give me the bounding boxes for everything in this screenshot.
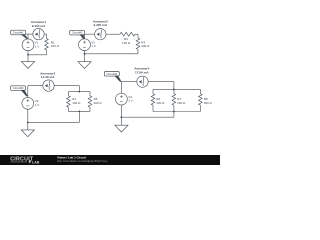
resistor R5: [89, 92, 91, 96]
resistor R2: [120, 32, 135, 36]
svg-text:17.86 mA: 17.86 mA: [135, 70, 149, 74]
wire bottom rail c2: [85, 53, 139, 55]
wire: [135, 33, 138, 35]
wire: [120, 105, 122, 117]
wire: [85, 33, 95, 35]
svg-text:200 Ω: 200 Ω: [141, 44, 150, 48]
node flag Circuit#4: [104, 72, 119, 77]
svg-text:100 Ω: 100 Ω: [51, 44, 60, 48]
wire: [27, 109, 29, 122]
wire: [106, 33, 120, 35]
wire: [46, 34, 48, 38]
svg-text:Circuit#3: Circuit#3: [13, 86, 24, 90]
junction: [84, 53, 86, 55]
voltage source V4: [116, 93, 128, 105]
ground c1: [27, 55, 29, 62]
ammeter AM1: [33, 28, 44, 39]
ground c2: [84, 54, 86, 62]
svg-text:1 V: 1 V: [128, 99, 133, 103]
resistor R3: [136, 38, 140, 49]
svg-text:200 Ω: 200 Ω: [94, 101, 103, 105]
wire: [27, 86, 29, 98]
footer bar: [0, 155, 220, 165]
junction: [27, 54, 29, 56]
wire: [27, 34, 29, 39]
wire bottom rail c3 box: [68, 110, 90, 112]
wire bottom rail c1: [28, 54, 47, 56]
wire: [84, 51, 86, 54]
resistor R1: [45, 39, 49, 50]
wire: [54, 85, 79, 87]
wire bottom rail c3: [28, 121, 80, 123]
ground c4: [120, 117, 122, 125]
ammeter AM4: [137, 76, 148, 87]
resistor R8: [199, 89, 201, 93]
svg-text:100 Ω: 100 Ω: [122, 41, 131, 45]
svg-text:Circuit#2: Circuit#2: [72, 31, 83, 35]
svg-text:100 Ω: 100 Ω: [156, 101, 165, 105]
svg-text:100 Ω: 100 Ω: [72, 101, 81, 105]
ammeter AM2: [95, 29, 106, 40]
wire: [44, 33, 46, 35]
svg-text:1 V: 1 V: [35, 103, 40, 107]
svg-text:CIRCUIT: CIRCUIT: [10, 156, 34, 162]
wire bottom rail c4 box: [153, 111, 200, 113]
wire: [148, 81, 174, 83]
svg-text:Circuit#1: Circuit#1: [13, 31, 24, 35]
wire: [121, 81, 136, 83]
svg-text:3.205 mA: 3.205 mA: [94, 23, 108, 27]
junction: [121, 116, 123, 118]
wire: [27, 51, 29, 55]
svg-text:14.29 mA: 14.29 mA: [41, 75, 55, 79]
svg-text:9.434 mA: 9.434 mA: [32, 24, 46, 28]
voltage source V1: [22, 39, 34, 51]
resistor R4: [67, 92, 69, 96]
wire top rail c3 box: [68, 91, 90, 93]
wire: [46, 50, 48, 55]
svg-text:200 Ω: 200 Ω: [177, 101, 186, 105]
svg-text:Circuit#4: Circuit#4: [106, 72, 117, 76]
node flag Circuit#2: [70, 30, 85, 35]
svg-text:1 V: 1 V: [91, 44, 96, 48]
resistor R7: [173, 89, 175, 93]
svg-text:300 Ω: 300 Ω: [204, 101, 213, 105]
wire bottom rail c4: [121, 116, 173, 118]
node flag Circuit#3: [11, 86, 26, 91]
wire: [26, 33, 33, 35]
junction: [27, 122, 29, 124]
wire: [84, 34, 86, 39]
node flag Circuit#1: [11, 30, 26, 35]
voltage source V2: [79, 39, 91, 51]
wire top rail c4 box: [153, 88, 200, 90]
svg-text:LAB: LAB: [32, 160, 40, 164]
wire: [137, 49, 139, 53]
resistor R6: [152, 89, 154, 93]
svg-text:1 V: 1 V: [35, 44, 40, 48]
svg-text:http://circuitlab.com/c9qk4yv5: http://circuitlab.com/c9qk4yv59cj7mxy: [57, 159, 108, 163]
voltage source V3: [22, 97, 34, 109]
ammeter AM3: [43, 80, 54, 91]
ground c3: [27, 122, 29, 129]
